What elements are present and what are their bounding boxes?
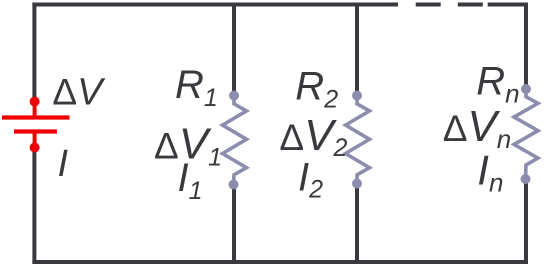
wire branch 1 vertical below R1: [232, 189, 236, 262]
wire left vertical above battery: [32, 3, 36, 98]
svg-text:Rn: Rn: [476, 59, 519, 108]
resistor R1 bottom node: [229, 180, 239, 190]
wire branch 2 vertical below R2: [355, 188, 359, 262]
svg-text:R1: R1: [175, 63, 218, 112]
wire top bus right solid segment: [488, 3, 528, 7]
resistor Rn top node: [521, 84, 531, 94]
wire branch n vertical above Rn: [524, 3, 528, 86]
svg-text:ΔV: ΔV: [52, 72, 106, 114]
wire top bus dash 2: [458, 3, 483, 7]
battery B1 top lead: [33, 102, 37, 117]
wire bottom bus: [32, 260, 528, 264]
resistor R1 zigzag: [223, 96, 247, 185]
svg-text:I: I: [58, 143, 69, 185]
wire top bus solid segment: [32, 3, 398, 7]
resistor Rn bottom node: [521, 174, 531, 184]
battery B1 bottom lead: [33, 133, 37, 148]
resistor R2 top node: [352, 91, 362, 101]
svg-text:R2: R2: [295, 64, 338, 113]
battery B1 top terminal node: [30, 97, 40, 107]
wire top bus dash 1: [416, 3, 441, 7]
resistor R1 top node: [229, 91, 239, 101]
battery B1 short plate: [14, 129, 57, 133]
wire branch 1 vertical above R1: [232, 3, 236, 92]
svg-text:ΔV2: ΔV2: [279, 111, 347, 162]
svg-text:In: In: [477, 146, 503, 197]
wire left vertical below battery: [32, 152, 36, 264]
resistor R2 bottom node: [352, 179, 362, 189]
battery B1 bottom terminal node: [30, 143, 40, 153]
resistor Rn zigzag: [514, 89, 538, 179]
wire branch n vertical below Rn: [524, 184, 528, 265]
resistor R2 zigzag: [346, 96, 370, 184]
wire branch 2 vertical above R2: [355, 3, 359, 92]
svg-text:I2: I2: [298, 156, 323, 204]
battery B1 long plate: [2, 115, 70, 119]
